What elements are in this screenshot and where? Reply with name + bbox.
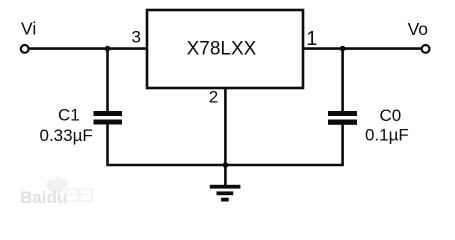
capacitor C1 top plate (94, 111, 123, 116)
svg-text:Vo: Vo (408, 19, 428, 39)
svg-text:Vi: Vi (21, 18, 36, 38)
svg-text:C0: C0 (380, 106, 402, 125)
wire: pin 2 to ground node (224, 88, 227, 165)
terminal Vo (422, 45, 430, 53)
capacitor C1 bottom plate (94, 120, 123, 125)
svg-text:3: 3 (132, 28, 141, 47)
ground symbol bar 2 (217, 191, 234, 195)
svg-text:1: 1 (306, 28, 317, 50)
junction: input node (105, 46, 111, 52)
ground symbol bar 1 (210, 185, 241, 189)
junction: ground node (223, 162, 229, 168)
wire: bottom return (C1 to C0) (108, 123, 343, 165)
svg-text:2: 2 (209, 88, 218, 107)
svg-text:0.33µF: 0.33µF (40, 126, 93, 145)
IC U1 X78LXX (147, 10, 303, 88)
svg-text:Baidu: Baidu (20, 188, 67, 207)
svg-text:X78LXX: X78LXX (187, 39, 257, 60)
wire: C1 branch down from input node (106, 49, 109, 112)
ground symbol bar 3 (221, 198, 229, 202)
capacitor C0 top plate (328, 111, 357, 116)
wire: C0 branch down from output node (341, 49, 344, 112)
svg-text:C1: C1 (58, 106, 80, 125)
svg-text:0.1µF: 0.1µF (365, 126, 409, 145)
ground stem wire (224, 165, 227, 185)
terminal Vi (21, 45, 29, 53)
capacitor C0 bottom plate (328, 120, 357, 125)
wire: pin 1 to output Vo (303, 47, 422, 50)
wire: input Vi to pin 3 (29, 47, 147, 50)
junction: output node (340, 46, 346, 52)
